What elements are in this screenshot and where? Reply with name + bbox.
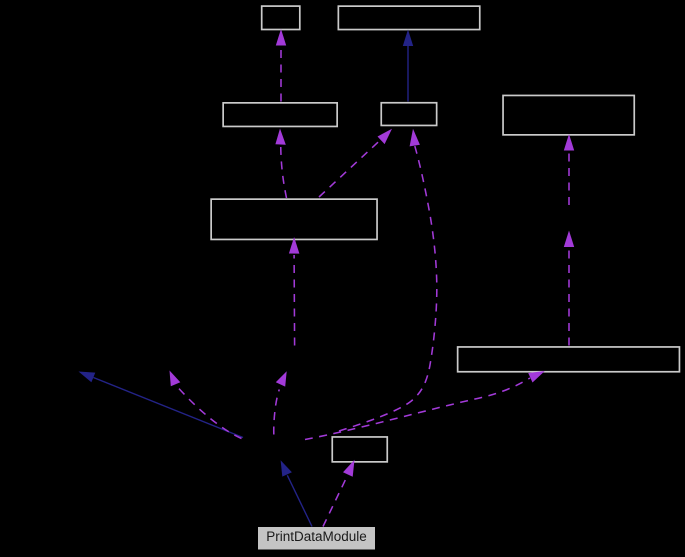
node B8 (small box above PrintDataModule) <box>332 437 387 462</box>
edge A12 solid blue PrintDataModule to junction <box>281 460 312 526</box>
edge A4 dashed B6 to B4 <box>319 129 392 197</box>
edge A13 long dashed to B7 <box>305 371 545 440</box>
node B2 (top wide box) <box>338 6 479 29</box>
edge A7 dashed short up from junction <box>274 371 287 434</box>
edge A14 long dashed curve to B4 <box>339 129 437 431</box>
edge A3 dashed B6 to B3 <box>275 129 286 199</box>
edge A11 dashed PrintDataModule to B8 <box>323 460 355 527</box>
node B5 (right tall box) <box>503 95 634 134</box>
edge A5a dashed upper (to B5) <box>564 134 574 205</box>
edge A6 dashed vertical to B6 bottom <box>289 237 300 346</box>
node B3 (second row left box) <box>223 103 337 127</box>
node B1 (top-left small box) <box>262 6 300 29</box>
edge A2 solid blue B4 to B2 <box>403 30 413 102</box>
edge A5b dashed lower (from B7) <box>564 231 574 346</box>
svg-text:PrintDataModule: PrintDataModule <box>266 529 367 544</box>
node B9 PrintDataModule <box>258 527 375 550</box>
edge A1 dashed B3 to B1 <box>276 29 286 102</box>
node B7 (right wide box) <box>458 347 680 372</box>
edge A8 long solid blue to far left <box>79 372 244 438</box>
edge A9 dashed curve to left arrowhead <box>170 371 242 439</box>
node B6 (middle tall box) <box>211 199 377 239</box>
node B4 (second row small box) <box>381 103 436 126</box>
